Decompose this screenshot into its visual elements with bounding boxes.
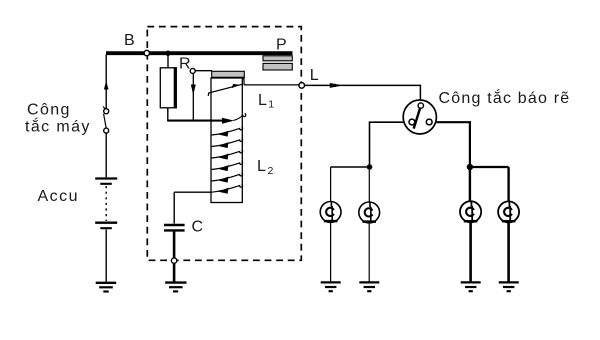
arrow down on R branch [191, 85, 196, 96]
wire right lamps horizontal [470, 166, 509, 168]
armature wire L1 turn [208, 84, 242, 96]
coil turn 5 [212, 173, 243, 183]
wire lamp3 to ground [469, 222, 472, 281]
label C [192, 219, 204, 236]
wire to capacitor ground [173, 263, 176, 281]
svg-text:L: L [258, 92, 267, 109]
svg-text:Công: Công [27, 102, 71, 119]
fixed contact P lower [263, 63, 292, 70]
battery plate short 1 [100, 183, 112, 185]
svg-text:L: L [310, 67, 319, 84]
terminal circle R [190, 68, 195, 73]
wire capacitor vertical [173, 192, 175, 223]
svg-text:R: R [179, 56, 191, 73]
resistor R body [160, 67, 176, 108]
ground lamp4 [499, 282, 519, 291]
wire coil to capacitor horizontal [174, 191, 211, 193]
wire coil to L terminal [244, 79, 299, 85]
switch pin right [426, 119, 432, 125]
dashed flasher-unit box [147, 27, 301, 261]
relay coil core body [211, 78, 242, 203]
wire switch to left branch [370, 122, 404, 165]
coil turn 3 [212, 150, 243, 160]
arrow up on ignition branch [104, 81, 109, 90]
wire ignition-switch branch upper [105, 55, 107, 109]
junction dot bus/resistor [165, 51, 170, 56]
switch pin left [409, 119, 415, 125]
battery plate short 2 [100, 227, 112, 229]
wire resistor bottom [167, 108, 169, 121]
arrow right on L wire [330, 83, 343, 88]
label Cong tac may [25, 102, 91, 136]
svg-text:1: 1 [268, 99, 274, 111]
svg-text:P: P [276, 37, 287, 54]
battery dotted middle wire [105, 186, 107, 221]
svg-text:Accu: Accu [38, 188, 80, 205]
wire bus from B to P [106, 51, 293, 55]
label R [179, 56, 191, 73]
label L2 [257, 158, 274, 177]
svg-text:Công tắc báo rẽ: Công tắc báo rẽ [439, 88, 571, 107]
svg-text:L: L [257, 158, 266, 175]
wire lamp1 stem top [330, 167, 332, 201]
wire R terminal to moving contact [195, 70, 212, 72]
ground lamp2 [359, 282, 379, 291]
terminal circle L [299, 83, 305, 89]
wire switch to battery [105, 133, 107, 177]
wire lamp1 to ground [330, 222, 332, 281]
wire junction horizontal to coil [167, 120, 211, 122]
ignition switch contact lower [104, 128, 109, 133]
svg-text:B: B [124, 32, 135, 49]
lamp 4 [498, 201, 519, 222]
wire battery to ground [105, 230, 107, 283]
wire lamp2 to ground [368, 223, 370, 282]
wire capacitor to box edge [173, 232, 176, 259]
wire lamp4 to ground [507, 222, 510, 281]
lamp 1 [320, 202, 341, 223]
wire lamp3 stem top [469, 170, 471, 201]
label L [310, 67, 319, 84]
ignition switch contact upper [104, 109, 109, 114]
coil turn 4 [212, 162, 243, 172]
coil entry arrow right [211, 114, 245, 124]
fixed contact P upper [263, 56, 292, 61]
coil turn 2 [212, 139, 243, 149]
ground lamp1 [321, 282, 341, 291]
coil turn 6 [212, 184, 243, 194]
switch lever [414, 108, 421, 129]
wire left lamps horizontal [331, 166, 370, 168]
lamp 2 [359, 202, 380, 223]
label L1 [258, 92, 274, 111]
ground capacitor [165, 283, 186, 292]
battery Accu plate long 1 [95, 177, 117, 179]
ignition switch blade [103, 107, 106, 129]
svg-text:2: 2 [268, 165, 274, 177]
label B [124, 32, 135, 49]
lamp 3 [460, 201, 481, 222]
switch pin top [418, 103, 423, 108]
moving contact strip [211, 71, 244, 78]
label Cong tac bao re [439, 88, 571, 107]
wire L to turn-signal switch [304, 85, 420, 100]
turn signal switch body [403, 100, 436, 134]
capacitor C plates [164, 225, 185, 230]
wire switch to right branch [436, 122, 470, 164]
wire lamp2 stem top [368, 170, 370, 202]
junction dot right branch [467, 164, 473, 170]
ground battery [96, 283, 117, 292]
wire lamp4 stem top [507, 167, 509, 202]
svg-text:C: C [192, 219, 204, 236]
wire R branch down [192, 74, 194, 121]
ground lamp3 [461, 282, 481, 291]
label Accu [38, 188, 80, 205]
battery plate long 2 [95, 222, 117, 224]
label P [276, 37, 287, 54]
node B terminal circle [144, 50, 149, 55]
svg-text:tắc máy: tắc máy [25, 117, 91, 136]
terminal circle on box bottom [171, 258, 176, 263]
wire bus to resistor [167, 55, 169, 68]
junction dot left branch [367, 164, 373, 170]
coil turn 1 [212, 127, 243, 137]
